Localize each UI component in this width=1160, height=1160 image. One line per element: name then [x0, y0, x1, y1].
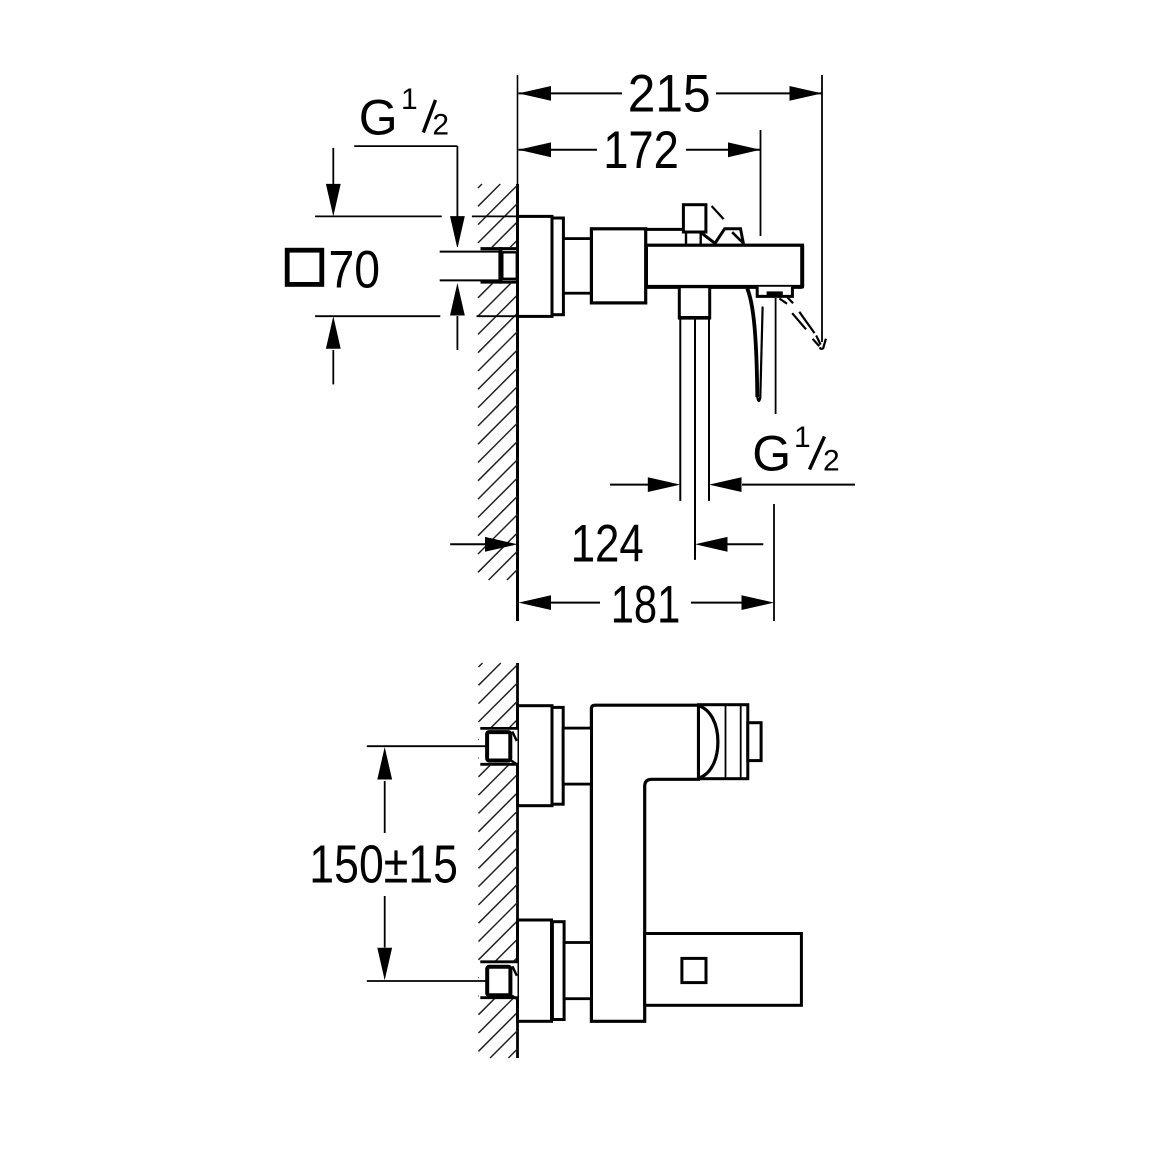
svg-text:1: 1	[401, 83, 418, 116]
wall flange (top view)	[518, 216, 553, 316]
svg-text:150±15: 150±15	[309, 836, 458, 895]
cartridge housing (front view)	[699, 705, 748, 779]
svg-text:G: G	[359, 89, 398, 145]
spray direction dashes	[779, 299, 787, 304]
dimension 215	[519, 92, 623, 94]
inlet pipe (top view)	[440, 251, 501, 253]
connector (top view)	[563, 239, 591, 294]
wall section line (top view)	[517, 75, 519, 185]
spout (front view)	[645, 934, 802, 1006]
dimension 124	[450, 543, 485, 545]
upper inlet nut	[480, 727, 517, 730]
dimension 181 extension (right)	[773, 504, 775, 621]
dimension 150±15 reference lines	[367, 745, 487, 747]
aerator extension line	[775, 298, 777, 414]
dimension 150±15	[384, 781, 386, 833]
svg-text:124: 124	[571, 515, 644, 574]
spout hole	[682, 958, 706, 982]
spout aerator (top view)	[757, 287, 792, 297]
wall hatching (front view)	[479, 663, 483, 667]
body with upper arm (front view)	[591, 705, 698, 1021]
svg-text:1: 1	[794, 421, 811, 454]
svg-text:2: 2	[432, 108, 449, 141]
dimension square-70 symbol	[287, 250, 322, 284]
wall line (front view)	[516, 663, 519, 1058]
G 1/2 hose dimension	[610, 484, 648, 486]
diverter knob	[683, 205, 706, 232]
shower outlet (top view)	[679, 287, 709, 318]
knob motion dash	[712, 206, 724, 219]
upper flange (front view)	[518, 706, 553, 806]
body shoulder line	[646, 228, 684, 231]
svg-text:172: 172	[603, 121, 679, 180]
lower connector (front view)	[564, 943, 591, 999]
lower flange (front view)	[518, 920, 552, 1021]
inlet pipe white mask	[440, 247, 518, 284]
knob stem	[685, 232, 687, 245]
shower hose lines	[679, 319, 681, 501]
upper inlet nut white mask	[479, 728, 518, 764]
G 1/2 leader line	[354, 145, 457, 147]
union nut (top view)	[481, 247, 518, 250]
valve body block (top view)	[591, 229, 645, 303]
dimension 172	[519, 149, 598, 151]
70 reference line top	[315, 215, 442, 217]
dimension 215 extension line (right)	[821, 75, 823, 342]
70 arrow top	[332, 148, 334, 186]
handle lever blade (top view)	[747, 288, 762, 397]
cartridge ring lines	[725, 705, 727, 779]
dimension 172 extension line (right)	[760, 130, 762, 236]
handle lever (closed, top view)	[701, 229, 744, 244]
cartridge dome	[699, 706, 718, 779]
main body (top view)	[646, 245, 802, 287]
wall hatching (top view)	[478, 184, 482, 188]
svg-text:G: G	[752, 426, 791, 482]
svg-text:70: 70	[329, 240, 381, 299]
handle knob (front view)	[748, 723, 761, 761]
pipe leader arrow (below pipe)	[456, 316, 458, 350]
70 arrow bottom	[332, 350, 334, 384]
dimension 181	[550, 602, 600, 604]
svg-text:2: 2	[823, 445, 840, 478]
upper connector (front view)	[563, 728, 591, 784]
lower inlet nut	[480, 960, 517, 963]
lower inlet nut white mask	[479, 962, 518, 998]
70 reference line bottom	[315, 315, 440, 317]
svg-text:215: 215	[628, 64, 711, 123]
svg-text:181: 181	[611, 576, 681, 635]
